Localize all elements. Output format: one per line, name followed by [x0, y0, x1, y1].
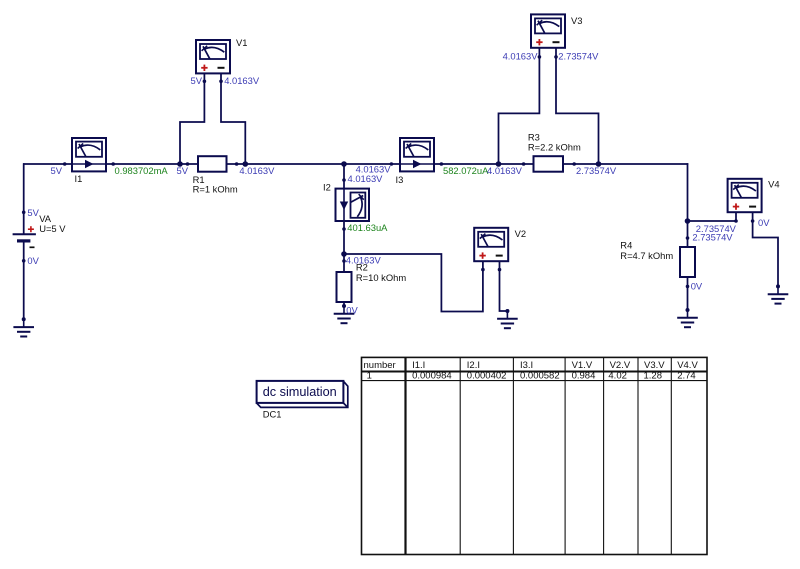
- dc simulation block DC1: [257, 381, 348, 408]
- pin node dots: [22, 55, 754, 288]
- wire: right corner down to node: [687, 163, 689, 221]
- ground (below R2): [334, 304, 355, 323]
- svg-text:U=5 V: U=5 V: [39, 223, 66, 234]
- svg-text:V1: V1: [236, 37, 247, 48]
- resistor R2: [337, 272, 352, 302]
- svg-text:5V: 5V: [177, 165, 189, 176]
- svg-text:5V: 5V: [191, 75, 203, 86]
- svg-text:5V: 5V: [51, 165, 63, 176]
- ground (below VA): [13, 317, 34, 336]
- svg-text:4.0163V: 4.0163V: [346, 254, 382, 265]
- svg-text:R=1 kOhm: R=1 kOhm: [193, 183, 238, 194]
- svg-text:4.0163V: 4.0163V: [224, 75, 260, 86]
- voltmeter V2: [474, 228, 508, 261]
- wire: main rail R1 to R3: [227, 163, 534, 165]
- svg-text:1: 1: [367, 370, 372, 381]
- svg-text:R=10 kOhm: R=10 kOhm: [356, 272, 406, 283]
- voltage source VA: [13, 226, 36, 247]
- wire: V3 left loop: [499, 48, 540, 164]
- svg-text:dc simulation: dc simulation: [263, 385, 337, 399]
- svg-text:2.73574V: 2.73574V: [558, 50, 599, 61]
- wire: V2 minus to ground: [500, 261, 508, 311]
- svg-text:0V: 0V: [27, 255, 39, 266]
- wire: node down to R4: [687, 221, 689, 247]
- svg-text:2.74: 2.74: [677, 370, 696, 381]
- svg-text:R=4.7 kOhm: R=4.7 kOhm: [620, 250, 673, 261]
- wire: V1 left loop: [180, 73, 204, 164]
- wire: V4 plus lead: [735, 212, 737, 221]
- wire: V4 minus to ground: [753, 212, 778, 286]
- svg-text:V3: V3: [571, 15, 582, 26]
- resistor R4: [680, 247, 695, 277]
- voltmeter V1: [196, 40, 230, 73]
- svg-text:2.73574V: 2.73574V: [692, 231, 733, 242]
- svg-text:0V: 0V: [346, 304, 358, 315]
- svg-text:I2: I2: [323, 182, 331, 193]
- svg-text:582.072uA: 582.072uA: [443, 165, 489, 176]
- svg-text:0.000402: 0.000402: [467, 370, 507, 381]
- svg-text:0.984: 0.984: [572, 370, 596, 381]
- svg-text:DC1: DC1: [263, 408, 282, 419]
- wire: VA top lead up to main rail: [23, 163, 25, 234]
- wire: I2 branch down: [343, 164, 345, 272]
- wire junctions: [177, 161, 690, 257]
- svg-text:4.0163V: 4.0163V: [239, 165, 275, 176]
- wire: main rail from VA corner to R1: [23, 163, 198, 165]
- resistor R3: [534, 156, 564, 172]
- wire: VA bottom lead to ground: [23, 241, 25, 319]
- svg-text:4.02: 4.02: [608, 370, 627, 381]
- voltmeter V3: [531, 14, 565, 47]
- results table (tabular diagram): [362, 357, 708, 554]
- svg-text:R4: R4: [620, 239, 632, 250]
- svg-text:4.0163V: 4.0163V: [487, 165, 523, 176]
- ammeter I2: [336, 189, 370, 221]
- svg-text:0V: 0V: [691, 280, 703, 291]
- wire: R2 bottom to ground: [343, 302, 345, 306]
- svg-text:401.63uA: 401.63uA: [347, 222, 388, 233]
- svg-text:I1: I1: [75, 173, 83, 184]
- wire: V1 right loop: [221, 73, 245, 164]
- svg-text:R=2.2 kOhm: R=2.2 kOhm: [528, 141, 581, 152]
- svg-text:1.28: 1.28: [644, 370, 663, 381]
- resistor R1: [198, 156, 227, 172]
- wire: R4 bottom to ground: [687, 277, 689, 310]
- ground (below R4): [677, 308, 698, 327]
- ground (below V4): [768, 284, 789, 303]
- svg-text:I3: I3: [396, 174, 404, 185]
- svg-text:4.0163V: 4.0163V: [348, 173, 384, 184]
- ammeter I1: [72, 138, 106, 171]
- ammeter I3: [400, 138, 434, 171]
- wire: main rail R3 to right corner: [563, 163, 688, 165]
- svg-text:0.983702mA: 0.983702mA: [115, 165, 169, 176]
- svg-text:V2: V2: [515, 228, 526, 239]
- wire: node to V2 plus: [344, 254, 483, 312]
- wire: node to V4 plus: [688, 220, 737, 222]
- svg-text:0.000582: 0.000582: [520, 370, 560, 381]
- wire: V3 right loop: [556, 48, 599, 164]
- svg-text:0V: 0V: [758, 217, 770, 228]
- svg-text:0.000984: 0.000984: [412, 370, 452, 381]
- ground (below V2): [497, 309, 518, 328]
- svg-text:5V: 5V: [27, 207, 39, 218]
- svg-text:V4: V4: [768, 179, 779, 190]
- svg-text:4.0163V: 4.0163V: [503, 50, 539, 61]
- voltmeter V4: [728, 179, 762, 212]
- svg-text:2.73574V: 2.73574V: [576, 165, 617, 176]
